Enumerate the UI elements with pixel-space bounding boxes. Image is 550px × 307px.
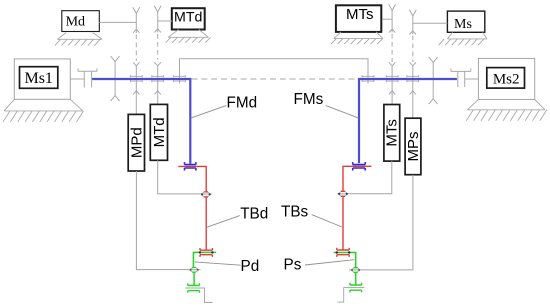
svg-text:MTd: MTd [151,117,168,147]
blue drive shaft FMd path [92,79,190,164]
signal line W1 (Ms / MPs channel) [409,10,416,16]
green shaft to bottom coupling right [355,272,357,285]
svg-text:FMd: FMd [227,95,258,112]
red brake arm TBs [343,166,371,250]
signal line V2 (MTd channel) [154,6,161,12]
signal line V1 (Md / MPd channel) [133,7,140,13]
svg-text:Ps: Ps [284,257,302,274]
closing link shaft top (FM line between gear stubs) [180,59,369,84]
shaft Ms1 output [70,78,84,80]
coupling between Ms1 and gearbox input shaft [78,68,97,87]
machine Ms2 (right driven machine) [478,58,534,99]
gray link through green coupling with elbow [186,288,213,303]
gear stub right W3 [362,75,374,82]
svg-text:MTd: MTd [174,10,202,26]
svg-text:TBs: TBs [281,204,309,221]
dashed center shaft between gearboxes [192,78,358,80]
svg-text:FMs: FMs [294,91,324,108]
svg-text:TBd: TBd [240,206,268,223]
svg-text:Ms: Ms [454,17,472,32]
torque sensor box MPs (vertical) [405,118,421,175]
svg-text:MPd: MPd [128,127,145,158]
wire MTd display to signal line V2 [158,20,172,22]
tap ellipse on TBd line [202,192,210,197]
green shaft to bottom coupling [193,272,195,285]
green link line Pd through red coupling [193,252,216,267]
shaft into Ms2 [465,78,479,80]
green coupling bottom right [350,283,362,293]
svg-text:Ms1: Ms1 [24,70,52,87]
tap ellipse on Ps line [352,268,359,273]
svg-text:MPs: MPs [405,132,422,162]
ground under Ms2 [467,100,545,110]
tap ellipse on TBs line [339,191,347,196]
display box MTd (top) [172,8,205,29]
wire MTs display to signal line W2 [383,18,393,20]
ground under MTs display [334,32,383,39]
svg-text:Ms2: Ms2 [493,71,520,87]
support shaft line V0 with bearing forks [111,56,120,61]
tap ellipse on Pd line [190,268,197,273]
torque sensor box MTs (vertical) [384,105,400,162]
coupling between gearbox and Ms2 [451,68,471,87]
red brake arm TBd [178,166,206,250]
display box Ms [447,11,484,32]
display box Md [62,11,100,32]
blue drive shaft FMs path [359,79,457,163]
sensor wire MTs box to red ellipse tap [347,161,392,194]
ground under MTd display [168,30,208,38]
signal line W2 (MTs channel) [389,4,396,10]
red coupling on TBs bottom [337,248,349,257]
wire Md to signal line V1 [99,21,136,23]
brake coupling right (blue flanges on FMs shaft end) [353,162,366,170]
green link line Ps through red coupling [334,253,356,269]
red coupling on TBd bottom [200,248,212,257]
sensor wire MTd box to red ellipse tap [158,160,202,194]
ground under Ms [447,32,487,39]
display box MTs (top) [336,5,381,32]
machine Ms1 (left driving machine) [14,59,70,99]
torque sensor box MTd (vertical) [150,104,167,160]
gear stub left V3 [174,75,186,82]
green coupling bottom left [188,283,200,293]
svg-text:Pd: Pd [241,258,260,275]
ground under Ms1 [4,99,83,111]
svg-text:Md: Md [66,14,85,29]
gray link through green coupling with elbow right [337,288,364,303]
brake coupling left (blue flanges on FMd shaft end) [185,162,196,170]
sensor wire MPs box down to green ellipse tap [359,175,413,270]
ground under Md [57,33,102,40]
wire Ms to signal line W1 [413,22,448,24]
svg-text:MTs: MTs [384,119,401,147]
sensor wire MPd box down to green ellipse tap [136,171,190,270]
torque sensor box MPd (vertical) [128,114,144,171]
svg-text:MTs: MTs [346,6,374,23]
support shaft line W0 with bearing forks [429,57,438,62]
